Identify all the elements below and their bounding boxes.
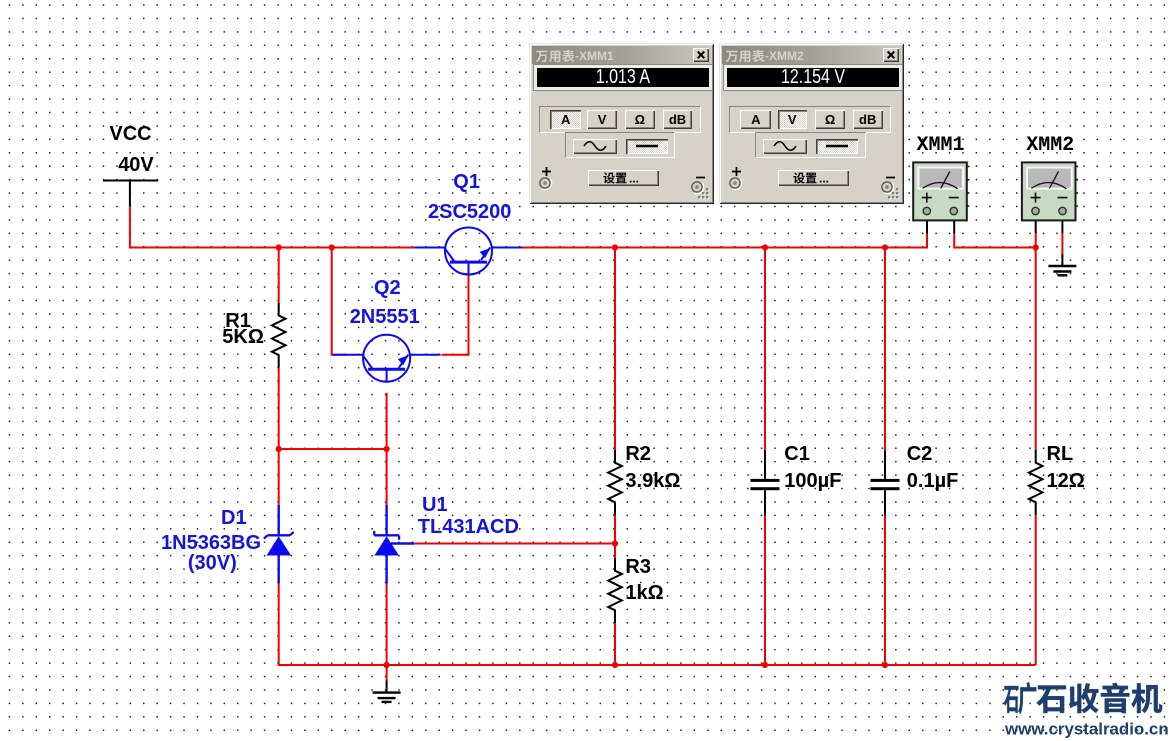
svg-text:-XMM2: -XMM2 xyxy=(765,49,804,63)
svg-text:...: ... xyxy=(819,171,829,185)
svg-text:-XMM1: -XMM1 xyxy=(575,49,614,63)
svg-text:www.crystalradio.cn: www.crystalradio.cn xyxy=(1004,720,1169,739)
svg-text:...: ... xyxy=(629,171,639,185)
